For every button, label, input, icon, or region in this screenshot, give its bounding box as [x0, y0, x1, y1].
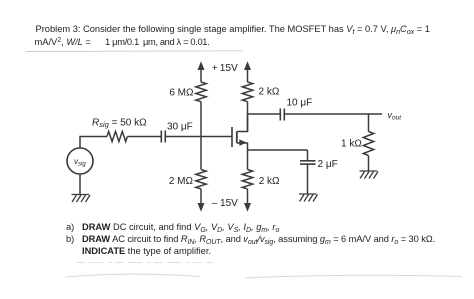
+15V supply arrow right — [244, 61, 251, 82]
svg-text:2 μF: 2 μF — [318, 159, 338, 170]
wire 2uF to ground — [307, 164, 309, 194]
question b continued — [82, 246, 211, 256]
wire vout node down — [368, 114, 370, 132]
question b) — [66, 234, 435, 244]
wire cap to vout — [284, 113, 382, 115]
svg-text:vout: vout — [388, 110, 403, 122]
drain node wire to 10uF — [248, 113, 281, 115]
ground under vsig — [72, 195, 91, 203]
wire cap to gate — [165, 136, 232, 138]
scan artifact streaks bottom — [76, 262, 213, 264]
MOSFET drain lead — [237, 114, 248, 132]
resistor 2 kΩ drain — [242, 82, 252, 102]
MOSFET source arrow — [239, 139, 247, 145]
wire vsig up — [80, 137, 107, 149]
capacitor 2 uF — [300, 161, 316, 164]
capacitor 10 uF — [280, 109, 284, 121]
resistor Rsig — [107, 132, 127, 142]
svg-text:15V: 15V — [220, 63, 238, 74]
resistor 2 MΩ — [196, 170, 206, 189]
resistor 6 MΩ — [196, 82, 206, 102]
wire right rail (2k bottom to drain node) — [247, 102, 249, 132]
wire Rsig to cap — [128, 136, 162, 138]
ground under 1k — [360, 171, 379, 179]
-15V arrow left — [198, 189, 205, 212]
svg-text:6 MΩ: 6 MΩ — [169, 88, 194, 99]
svg-text:2 kΩ: 2 kΩ — [259, 87, 280, 98]
resistor 2 kΩ source — [242, 170, 252, 189]
-15V arrow right — [244, 189, 251, 212]
source rail down to 2k — [247, 150, 249, 170]
source node wire right — [248, 149, 308, 151]
question a) — [66, 222, 279, 232]
svg-text:– 15V: – 15V — [212, 198, 238, 209]
problem statement line 1 — [36, 24, 430, 34]
problem statement line 2 — [35, 37, 38, 47]
svg-text:30 μF: 30 μF — [167, 121, 193, 132]
svg-text:vsig: vsig — [74, 157, 86, 167]
+15V supply arrow left — [198, 61, 205, 82]
svg-text:Rsig = 50 kΩ: Rsig = 50 kΩ — [92, 118, 147, 130]
svg-text:10 μF: 10 μF — [287, 98, 313, 109]
MOSFET source lead — [237, 143, 248, 150]
vsig source circle — [67, 148, 93, 174]
wire 1k to ground — [368, 156, 370, 172]
wire source node to 2uF — [307, 150, 309, 161]
svg-text:2 MΩ: 2 MΩ — [169, 176, 194, 187]
svg-text:+: + — [212, 63, 218, 74]
capacitor 30 uF — [161, 131, 165, 143]
MOSFET Q1 gate bar — [231, 127, 233, 147]
resistor 1 kΩ — [363, 132, 373, 156]
wire left rail mid (6M bottom to 2M top, through gate node) — [200, 102, 202, 170]
ground under 2uF — [299, 194, 318, 202]
wire vsig to ground — [79, 174, 81, 195]
svg-text:2 kΩ: 2 kΩ — [259, 176, 280, 187]
svg-text:1 kΩ: 1 kΩ — [341, 138, 362, 149]
MOSFET channel bar — [236, 132, 238, 144]
scan artifact line under header — [26, 50, 243, 53]
